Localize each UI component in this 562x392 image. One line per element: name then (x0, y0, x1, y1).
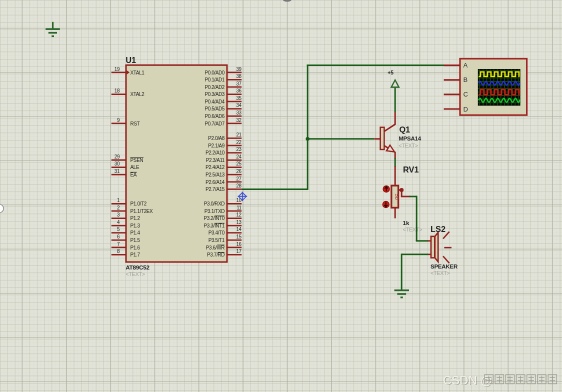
pin 16 P3.6/WR (227, 242, 242, 248)
svg-text:CSDN @: CSDN @ (443, 374, 493, 388)
oscilloscope pin B (444, 77, 469, 84)
pin label P2.6/A14 (206, 180, 225, 186)
wire: speaker bottom horizontal (402, 253, 429, 255)
svg-text:11: 11 (237, 205, 242, 211)
svg-text:MPSA14: MPSA14 (399, 136, 422, 142)
speaker sound wave middle (444, 247, 451, 249)
svg-text:D: D (463, 106, 468, 113)
svg-text:P2.5/A13: P2.5/A13 (206, 173, 225, 179)
pin label P3.3/INT1 (204, 223, 225, 229)
svg-text:B: B (463, 77, 468, 84)
svg-text:P3.3/INT1: P3.3/INT1 (204, 224, 225, 230)
pin 15 P3.5/T1 (227, 235, 242, 241)
svg-text:7: 7 (117, 242, 120, 248)
svg-text:P2.0/A8: P2.0/A8 (208, 136, 225, 142)
pin label P3.5/T1 (208, 238, 225, 244)
svg-text:21: 21 (236, 133, 242, 139)
pin label P0.2/AD2 (205, 85, 225, 91)
pin 34 P0.5/AD5 (227, 103, 242, 109)
pin 23 P2.2/A10 (227, 147, 242, 153)
svg-text:P1.0/T2: P1.0/T2 (130, 202, 147, 208)
transistor Q1 base pin stub (374, 138, 380, 140)
pin label P1.3 (130, 224, 140, 230)
svg-text:17: 17 (236, 249, 242, 255)
pin 29 PSEN (111, 154, 126, 160)
svg-text:16: 16 (236, 242, 242, 248)
svg-text:P1.5: P1.5 (130, 238, 140, 244)
svg-text:<TEXT>: <TEXT> (399, 144, 418, 150)
svg-text:30: 30 (114, 162, 120, 168)
oscilloscope body (460, 59, 527, 115)
pin 14 P3.4/T0 (227, 227, 242, 233)
svg-text:RST: RST (130, 121, 140, 127)
svg-text:23: 23 (236, 147, 242, 153)
XTAL1 clock input marker (127, 70, 130, 74)
junction node: base branch (306, 137, 310, 141)
button RV1 increase (383, 186, 389, 192)
pin label P2.0/A8 (208, 136, 225, 142)
pin 4 P1.3 (111, 220, 126, 226)
pin label PSEN (130, 158, 143, 164)
pin label P1.1/T2EX (130, 209, 153, 215)
pin 6 P1.5 (111, 235, 126, 241)
pin 8 P1.7 (111, 249, 126, 255)
svg-text:PSEN: PSEN (130, 158, 143, 164)
svg-text:P2.2/A10: P2.2/A10 (206, 151, 225, 157)
wire: down to ground (401, 254, 403, 290)
button RV1 decrease (383, 201, 389, 207)
svg-text:EA: EA (130, 173, 137, 179)
wire: +5 to Q1 collector (394, 88, 396, 112)
pin label P1.6 (130, 245, 140, 251)
svg-text:XTAL1: XTAL1 (130, 70, 144, 76)
svg-text:50: 50 (393, 194, 399, 200)
pin 28 P2.7/A15 (227, 184, 242, 190)
pin label P3.0/RXD (204, 202, 225, 208)
svg-text:AT89C52: AT89C52 (126, 266, 151, 272)
pin 7 P1.6 (111, 242, 126, 248)
oscilloscope pin D (444, 106, 469, 113)
pin label P1.2 (130, 216, 140, 222)
svg-text:SPEAKER: SPEAKER (431, 265, 459, 271)
svg-text:29: 29 (114, 154, 120, 160)
partial cursor blob top (283, 0, 292, 2)
ground (below speaker) (394, 290, 409, 297)
svg-text:P0.0/AD0: P0.0/AD0 (205, 70, 225, 76)
svg-text:P3.1/TXD: P3.1/TXD (204, 209, 225, 215)
speaker LS2 bottom pin (428, 253, 431, 255)
svg-text:P3.2/INT0: P3.2/INT0 (204, 216, 225, 222)
pin 35 P0.4/AD4 (227, 96, 242, 102)
pin 5 P1.4 (111, 227, 126, 233)
IC U1 AT89C52 body (126, 65, 227, 262)
svg-text:4: 4 (117, 220, 120, 226)
pin 1 P1.0/T2 (111, 198, 126, 204)
svg-text:P1.3: P1.3 (130, 224, 140, 230)
wire: branch to Q1 base (308, 138, 375, 140)
svg-text:36: 36 (236, 89, 242, 95)
pin label P1.5 (130, 238, 140, 244)
transistor Q1 emitter arrow (386, 145, 396, 155)
svg-text:1: 1 (117, 198, 120, 204)
svg-text:P2.7/A15: P2.7/A15 (206, 187, 225, 193)
waveform channel C red (479, 90, 520, 95)
oscilloscope pin A (444, 63, 469, 70)
svg-text:8: 8 (117, 249, 120, 255)
pin label P2.4/A12 (206, 165, 225, 171)
pin label P0.7/AD7 (205, 121, 225, 127)
speaker LS2 cone (435, 232, 438, 261)
svg-text:26: 26 (236, 169, 242, 175)
svg-text:P0.7/AD7: P0.7/AD7 (205, 121, 225, 127)
svg-text:C: C (463, 92, 468, 99)
svg-text:XTAL2: XTAL2 (130, 92, 144, 98)
pin label P3.4/T0 (208, 231, 225, 237)
pin 27 P2.6/A14 (227, 176, 242, 182)
pin 33 P0.6/AD6 (227, 111, 242, 117)
svg-text:LS2: LS2 (431, 225, 446, 234)
svg-text:A: A (463, 63, 468, 70)
potentiometer RV1 body (391, 186, 398, 208)
pin label P2.2/A10 (206, 151, 225, 157)
pin 19 XTAL1 (111, 67, 126, 73)
svg-text:P1.7: P1.7 (130, 253, 140, 259)
waveform channel B blue (479, 81, 520, 85)
pin 10 P3.0/RXD (227, 198, 242, 204)
oscilloscope screen graticule (478, 69, 520, 105)
svg-text:P3.4/T0: P3.4/T0 (208, 231, 225, 237)
svg-text:P2.6/A14: P2.6/A14 (206, 180, 225, 186)
svg-text:P2.3/A11: P2.3/A11 (206, 158, 225, 164)
speaker sound wave bottom (443, 256, 449, 263)
pin 31 EA (111, 169, 126, 175)
pin label P0.0/AD0 (205, 70, 225, 76)
partial circle left edge (0, 204, 4, 212)
pin 3 P1.2 (111, 213, 126, 219)
pin 22 P2.1/A9 (227, 140, 242, 146)
svg-text:31: 31 (114, 169, 120, 175)
svg-text:22: 22 (236, 140, 242, 146)
svg-text:P0.5/AD5: P0.5/AD5 (205, 107, 225, 113)
svg-text:P0.1/AD1: P0.1/AD1 (205, 78, 225, 84)
pin label P3.7/RD (207, 252, 225, 258)
svg-text:35: 35 (236, 96, 242, 102)
pin 24 P2.3/A11 (227, 155, 242, 161)
pin 2 P1.1/T2EX (111, 205, 126, 211)
pin 39 P0.0/AD0 (227, 67, 242, 73)
ground (top-left) (46, 22, 60, 36)
svg-text:P3.0/RXD: P3.0/RXD (204, 202, 225, 208)
svg-text:38: 38 (236, 74, 242, 80)
svg-text:ALE: ALE (130, 165, 140, 171)
svg-text:+5: +5 (388, 70, 394, 76)
svg-text:P3.7/RD: P3.7/RD (207, 253, 225, 259)
svg-text:P1.6: P1.6 (130, 245, 140, 251)
svg-text:Q1: Q1 (399, 126, 410, 135)
origin marker (blue) (238, 192, 247, 201)
pin 25 P2.4/A12 (227, 162, 242, 168)
svg-text:12: 12 (236, 213, 242, 219)
pin label XTAL2 (130, 92, 144, 98)
pin label P1.7 (130, 253, 140, 259)
svg-text:U1: U1 (126, 56, 137, 65)
svg-text:1k: 1k (403, 221, 410, 227)
svg-text:28: 28 (236, 184, 242, 190)
speaker LS2 top pin (428, 240, 431, 242)
RV1 wiper terminal (398, 190, 410, 197)
svg-text:15: 15 (236, 235, 242, 241)
pin label RST (130, 121, 140, 127)
pin label P1.0/T2 (130, 202, 147, 208)
pin 18 XTAL2 (111, 89, 126, 95)
RV1 top pin (394, 166, 396, 186)
svg-text:32: 32 (236, 118, 242, 124)
wire: RV1 wiper to branch corner (410, 196, 417, 198)
pin 30 ALE (111, 162, 126, 168)
svg-text:19: 19 (114, 67, 120, 73)
svg-text:6: 6 (117, 235, 120, 241)
pin label EA (130, 172, 137, 178)
svg-text:18: 18 (114, 89, 120, 95)
transistor Q1 collector (384, 112, 395, 132)
svg-text:P0.2/AD2: P0.2/AD2 (205, 85, 225, 91)
wire: P2.7 pin28 to corner (242, 188, 308, 190)
pin 32 P0.7/AD7 (227, 118, 242, 124)
pin label P2.1/A9 (208, 143, 225, 149)
pin label P2.7/A15 (206, 187, 225, 193)
wire: top horizontal to oscilloscope A (307, 64, 446, 66)
svg-text:37: 37 (236, 81, 242, 87)
pin 11 P3.1/TXD (227, 205, 242, 211)
pin 13 P3.3/INT1 (227, 220, 242, 226)
pin label P0.4/AD4 (205, 99, 225, 105)
svg-text:P2.1/A9: P2.1/A9 (208, 143, 225, 149)
svg-text:P3.5/T1: P3.5/T1 (208, 238, 225, 244)
svg-text:39: 39 (236, 67, 242, 73)
wire: vertical riser (307, 65, 309, 190)
watermark CSDN (443, 374, 557, 389)
svg-text:P0.4/AD4: P0.4/AD4 (205, 99, 225, 105)
svg-text:P0.6/AD6: P0.6/AD6 (205, 114, 225, 120)
pin 37 P0.2/AD2 (227, 81, 242, 87)
svg-text:27: 27 (236, 176, 242, 182)
pin label P3.2/INT0 (204, 216, 225, 222)
svg-text:13: 13 (236, 220, 242, 226)
pin label P0.6/AD6 (205, 114, 225, 120)
pin 38 P0.1/AD1 (227, 74, 242, 80)
speaker LS2 driver (431, 236, 435, 257)
svg-text:P1.4: P1.4 (130, 231, 140, 237)
pin label P3.1/TXD (204, 209, 225, 215)
svg-text:24: 24 (236, 155, 242, 161)
wire: Q1 emitter to RV1 (394, 158, 396, 166)
svg-text:P0.3/AD3: P0.3/AD3 (205, 92, 225, 98)
oscilloscope pin C (444, 92, 469, 99)
pin label P1.4 (130, 231, 140, 237)
oscilloscope screen (478, 69, 520, 106)
pin 12 P3.2/INT0 (227, 213, 242, 219)
svg-text:RV1: RV1 (403, 165, 419, 174)
svg-text:9: 9 (117, 118, 120, 124)
speaker sound wave top (443, 232, 449, 239)
pin 36 P0.3/AD3 (227, 89, 242, 95)
svg-text:P3.6/WR: P3.6/WR (206, 245, 225, 251)
svg-text:<TEXT>: <TEXT> (126, 272, 145, 278)
svg-text:3: 3 (117, 213, 120, 219)
waveform channel D green (479, 98, 520, 102)
svg-text:34: 34 (236, 103, 242, 109)
svg-text:2: 2 (117, 205, 120, 211)
pin label XTAL1 (130, 70, 144, 76)
pin label P0.3/AD3 (205, 92, 225, 98)
pin 17 P3.7/RD (227, 249, 242, 255)
pin 9 RST (111, 118, 126, 124)
svg-text:<TEXT>: <TEXT> (403, 228, 422, 234)
waveform channel A yellow (479, 72, 520, 77)
svg-text:P1.2: P1.2 (130, 216, 140, 222)
pin label P0.5/AD5 (205, 107, 225, 113)
svg-text:33: 33 (236, 111, 242, 117)
transistor Q1 emitter (384, 146, 395, 159)
power arrow symbol (391, 80, 399, 87)
pin label P0.1/AD1 (205, 78, 225, 84)
pin 21 P2.0/A8 (227, 133, 242, 139)
RV1 bottom pin (394, 208, 396, 219)
wire: branch vertical down (416, 196, 418, 241)
pin label P2.5/A13 (206, 173, 225, 179)
svg-text:P2.4/A12: P2.4/A12 (206, 165, 225, 171)
pin label P3.6/WR (206, 245, 225, 251)
svg-text:14: 14 (236, 227, 242, 233)
pin label ALE (130, 165, 140, 171)
wire: to speaker top (416, 240, 428, 242)
RV1 wiper junction dot (400, 188, 404, 192)
pin label P2.3/A11 (206, 158, 225, 164)
transistor Q1 base bar (380, 127, 384, 149)
pin 26 P2.5/A13 (227, 169, 242, 175)
svg-text:P1.1/T2EX: P1.1/T2EX (130, 209, 153, 215)
svg-text:25: 25 (236, 162, 242, 168)
svg-text:<TEXT>: <TEXT> (431, 271, 450, 277)
svg-text:5: 5 (117, 227, 120, 233)
